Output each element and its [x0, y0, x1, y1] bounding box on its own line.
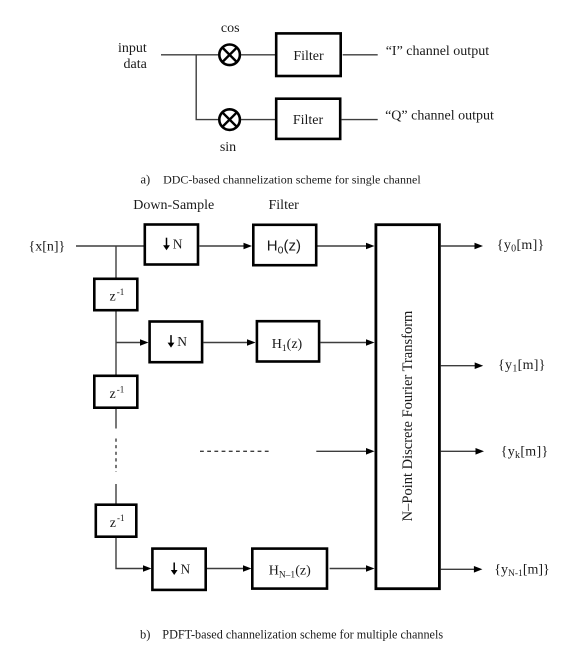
svg-text:-1: -1 — [117, 287, 125, 297]
wire F2 to Q output — [342, 119, 378, 121]
svg-text:cos: cos — [221, 21, 240, 36]
wire D2 to filter H1 with arrow — [203, 339, 255, 346]
multiplier M2 sin mixer — [219, 109, 240, 130]
wire dashed continuation horizontal — [200, 450, 270, 452]
svg-text:data: data — [124, 57, 148, 72]
wire H0 to DFT with arrow — [318, 243, 375, 250]
svg-text:z: z — [110, 516, 116, 531]
wire row k to DFT with arrow — [316, 448, 374, 455]
wire F1 to I output — [343, 54, 378, 56]
node input data — [118, 41, 148, 72]
svg-text:{y0[m]}: {y0[m]} — [497, 238, 545, 255]
filter H0 — [253, 225, 316, 265]
wire M1 to filter F1 — [241, 54, 275, 56]
svg-text:Down-Sample: Down-Sample — [133, 198, 214, 213]
svg-text:N–Point Discrete Fourier Trans: N–Point Discrete Fourier Transform — [400, 310, 416, 521]
wire dashed continuation vertical — [115, 439, 117, 473]
wire DFT to yk output with arrow — [441, 448, 484, 455]
filter F1 — [276, 33, 341, 76]
wire branch to downsampler D2 with arrow — [116, 339, 149, 346]
delay Z3 — [96, 505, 137, 537]
svg-text:PDFT-based channelization sche: PDFT-based channelization scheme for mul… — [162, 628, 443, 642]
svg-text:{yk[m]}: {yk[m]} — [501, 444, 549, 461]
svg-text:Filter: Filter — [269, 198, 300, 213]
svg-text:sin: sin — [220, 140, 236, 155]
wire below Z2 — [115, 409, 117, 429]
wire HN-1 to DFT with arrow — [330, 565, 375, 572]
svg-text:input: input — [118, 41, 147, 56]
wire branch to multiplier M2 — [196, 119, 219, 121]
downsampler D2 — [150, 322, 203, 363]
DFT block U1 — [376, 225, 440, 589]
svg-text:{yN-1[m]}: {yN-1[m]} — [494, 563, 549, 580]
wire input to branch — [161, 54, 218, 56]
filter F2 — [276, 99, 340, 139]
wire x[n] to downsampler D1 — [76, 245, 144, 247]
svg-text:z: z — [109, 387, 115, 402]
wire DFT to y1 output with arrow — [441, 362, 483, 369]
filter HN-1 — [252, 549, 327, 589]
svg-text:-1: -1 — [117, 513, 125, 523]
wire DFT to y0 output with arrow — [441, 243, 483, 250]
wire delay chain vertical upper — [115, 246, 117, 278]
wire Z3 down and to downsampler D3 with arrow — [116, 538, 152, 572]
svg-text:N: N — [177, 334, 187, 349]
multiplier M1 cos mixer — [219, 45, 240, 66]
svg-text:-1: -1 — [117, 384, 125, 394]
caption a — [141, 172, 422, 186]
delay Z2 — [94, 376, 137, 408]
svg-text:Filter: Filter — [293, 49, 324, 64]
filter H1 — [257, 321, 319, 361]
caption b — [140, 628, 443, 642]
svg-text:z: z — [109, 290, 115, 305]
wire DFT to yN-1 output with arrow — [441, 566, 483, 573]
svg-text:N: N — [173, 237, 183, 252]
wire branch vertical — [195, 55, 197, 120]
wire H1 to DFT with arrow — [320, 339, 374, 346]
svg-text:DDC-based channelization schem: DDC-based channelization scheme for sing… — [163, 172, 421, 186]
svg-text:H1(z): H1(z) — [272, 337, 303, 354]
svg-text:{x[n]}: {x[n]} — [29, 239, 66, 254]
svg-text:Filter: Filter — [293, 113, 324, 128]
downsampler D3 — [152, 549, 205, 590]
svg-text:“I” channel output: “I” channel output — [386, 44, 490, 59]
wire delay chain Z1 to Z2 — [115, 312, 117, 375]
wire M2 to filter F2 — [241, 119, 275, 121]
svg-text:N: N — [181, 561, 191, 576]
svg-text:H0(z): H0(z) — [267, 238, 301, 257]
wire D1 to filter H0 with arrow — [199, 243, 252, 250]
svg-text:b): b) — [140, 628, 150, 642]
svg-text:“Q” channel output: “Q” channel output — [385, 109, 494, 124]
wire D3 to filter HN-1 with arrow — [207, 565, 252, 572]
delay Z1 — [94, 279, 137, 310]
svg-text:a): a) — [141, 172, 151, 186]
downsampler D1 — [145, 225, 198, 265]
wire solid above Z3 — [115, 484, 117, 504]
svg-text:{y1[m]}: {y1[m]} — [498, 358, 546, 375]
